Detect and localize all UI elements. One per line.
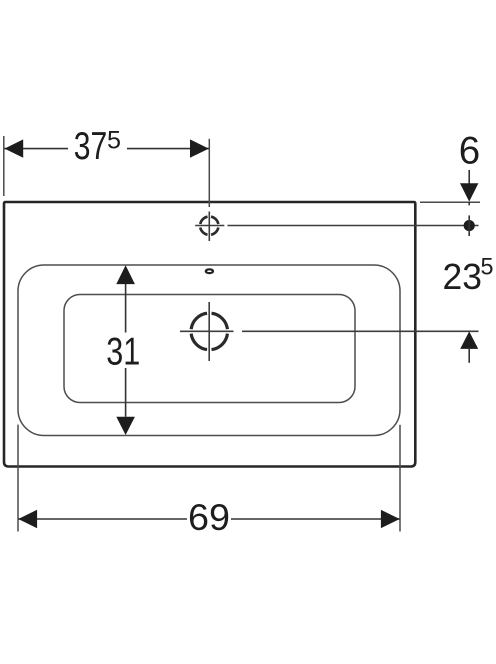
dimension 37.5 line right segment <box>127 148 209 150</box>
tap hole horizontal centerline <box>195 225 224 227</box>
dimension 37.5 line left segment <box>5 148 69 150</box>
overflow hole <box>206 269 213 273</box>
dimension 31 top arrowhead <box>116 265 135 284</box>
drain hole circle <box>191 313 227 349</box>
tap hole circle <box>200 217 218 235</box>
basin rim outline <box>18 265 400 436</box>
tap hole vertical centerline <box>208 212 210 242</box>
svg-text:5: 5 <box>107 126 121 154</box>
dimension 69 left extension line <box>17 425 19 532</box>
dimension 23.5 arrowhead <box>460 331 478 349</box>
reference dot vertical tick <box>468 215 470 236</box>
washbasin ceramic outer edge <box>4 202 415 467</box>
dimension 31 line lower segment <box>125 368 127 417</box>
reference dot on tap axis <box>464 220 475 231</box>
dimension 69 right extension line <box>399 425 401 532</box>
dimension 37.5 left arrowhead <box>5 139 24 157</box>
dimension 69 left arrowhead <box>18 510 37 528</box>
svg-text:37: 37 <box>74 125 108 168</box>
arrow tip stub through line <box>468 202 470 205</box>
drain axis line to right arrow <box>242 330 479 332</box>
dimension 37.5 right extension line <box>208 139 210 207</box>
drain hole vertical centerline <box>208 302 210 361</box>
dimension 69 line right segment <box>231 518 400 520</box>
dimension 31 bottom arrowhead <box>116 417 135 435</box>
dimension 69 right arrowhead <box>381 510 400 528</box>
dimension 31 line upper segment <box>125 284 127 333</box>
ceramic top edge extension line <box>420 201 480 203</box>
basin bowl outline <box>64 295 355 403</box>
dimension 37.5 left extension line <box>3 136 5 196</box>
dimension 6 arrow tail <box>468 170 470 184</box>
svg-text:23: 23 <box>443 256 482 297</box>
dimension 23.5 arrow tail <box>468 349 470 363</box>
svg-text:5: 5 <box>481 253 494 280</box>
drain hole horizontal centerline <box>180 330 234 332</box>
tap axis line to right reference dot <box>228 225 479 227</box>
dimension 6 arrowhead <box>460 183 478 201</box>
svg-text:6: 6 <box>459 129 480 172</box>
dimension 69 line left segment <box>18 518 187 520</box>
dimension 37.5 right arrowhead <box>190 139 209 157</box>
svg-text:31: 31 <box>106 331 140 374</box>
svg-text:69: 69 <box>188 496 230 538</box>
